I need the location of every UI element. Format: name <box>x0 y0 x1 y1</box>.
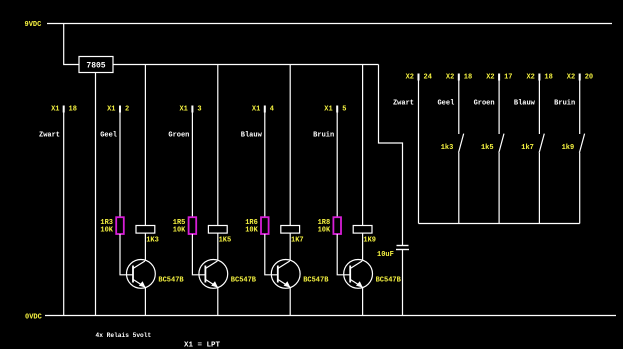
wire +5V rail to relay coil 1K3 <box>144 65 146 226</box>
svg-text:1k3: 1k3 <box>441 144 454 152</box>
1R6 10K value label <box>245 219 258 235</box>
relay coil 1K3 <box>136 226 155 234</box>
svg-text:10K: 10K <box>318 227 331 235</box>
svg-text:BC547B: BC547B <box>303 277 329 285</box>
X2 common bus wire <box>419 223 580 225</box>
svg-text:1k9: 1k9 <box>562 144 575 152</box>
connector X1 pin 3 <box>179 106 201 114</box>
wire coil 1K3 to collector of Q1 <box>144 233 146 261</box>
svg-text:3: 3 <box>197 106 201 114</box>
svg-text:10K: 10K <box>173 227 186 235</box>
connector X1 pin 5 <box>324 106 346 114</box>
svg-text:X2: X2 <box>486 74 494 82</box>
connector X1 pin 18 <box>51 106 77 114</box>
connector X2 pin 20 (Bruin) <box>567 74 593 82</box>
relay coil 1K7 <box>281 226 300 234</box>
resistor 1R6 10K <box>261 217 269 234</box>
+5V rail from 7805 output <box>113 64 379 66</box>
0VDC rail <box>45 315 616 317</box>
1R3 10K value label <box>100 219 113 235</box>
wire 9VDC rail to 7805 input <box>64 24 79 65</box>
voltage regulator U1 7805 <box>79 57 113 73</box>
svg-text:Bruin: Bruin <box>313 132 334 140</box>
wire resistor 1R5 to base of Q2 <box>192 234 205 275</box>
svg-text:1k5: 1k5 <box>481 144 494 152</box>
1R8 10K value label <box>318 219 331 235</box>
svg-text:1K5: 1K5 <box>219 237 232 245</box>
svg-text:Blauw: Blauw <box>241 132 263 140</box>
svg-text:BC547B: BC547B <box>376 277 402 285</box>
wire X2-18 to contact 1k7 <box>538 81 540 135</box>
wire X1-2 to resistor 1R3 <box>119 113 121 218</box>
svg-text:7805: 7805 <box>86 62 105 71</box>
svg-text:18: 18 <box>464 74 472 82</box>
wire +5V rail to relay coil 1K5 <box>217 65 219 226</box>
svg-text:10K: 10K <box>245 227 258 235</box>
svg-text:X2: X2 <box>526 74 534 82</box>
svg-text:Groen: Groen <box>168 132 189 140</box>
svg-text:Geel: Geel <box>437 100 454 108</box>
wire X1-4 to resistor 1R6 <box>264 113 266 218</box>
wire X2 common to bus <box>418 81 420 224</box>
svg-text:1k7: 1k7 <box>521 144 534 152</box>
wire +5V rail to relay coil 1K7 <box>289 65 291 226</box>
svg-text:Bruin: Bruin <box>554 100 575 108</box>
wire contact 1k5 to bus <box>498 153 500 224</box>
svg-text:2: 2 <box>125 106 129 114</box>
capacitor C1 <box>396 246 409 250</box>
svg-text:X1: X1 <box>107 106 115 114</box>
wire coil 1K7 to collector of Q3 <box>289 233 291 261</box>
resistor 1R5 10K <box>189 217 197 234</box>
relay coil 1K9 <box>353 226 372 234</box>
wire capacitor to 0VDC <box>402 250 404 316</box>
svg-text:X2: X2 <box>446 74 454 82</box>
wire resistor 1R8 to base of Q4 <box>337 234 350 275</box>
connector X2 pin 18 (Blauw) <box>526 74 552 82</box>
svg-text:24: 24 <box>424 74 432 82</box>
svg-text:4x Relais 5volt: 4x Relais 5volt <box>96 332 152 339</box>
transistor Q2 BC547B <box>199 260 228 289</box>
svg-text:Zwart: Zwart <box>39 132 60 140</box>
svg-text:20: 20 <box>585 74 593 82</box>
wire resistor 1R6 to base of Q3 <box>265 234 278 275</box>
svg-text:X2: X2 <box>406 74 414 82</box>
wire emitter of Q1 to 0VDC <box>144 288 146 316</box>
svg-text:17: 17 <box>504 74 512 82</box>
svg-text:18: 18 <box>69 106 77 114</box>
wire X2-17 to contact 1k5 <box>498 81 500 135</box>
wire X2-18 to contact 1k3 <box>458 81 460 135</box>
svg-text:Zwart: Zwart <box>393 100 414 108</box>
svg-text:1K3: 1K3 <box>146 237 159 245</box>
svg-text:4: 4 <box>270 106 274 114</box>
connector X2 pin 17 (Groen) <box>486 74 512 82</box>
connector X1 pin 2 <box>107 106 129 114</box>
wire X1-5 to resistor 1R8 <box>336 113 338 218</box>
svg-text:BC547B: BC547B <box>231 277 257 285</box>
wire emitter of Q4 to 0VDC <box>362 288 364 316</box>
svg-text:10uF: 10uF <box>377 251 394 259</box>
1R5 10K value label <box>173 219 186 235</box>
svg-text:X2: X2 <box>567 74 575 82</box>
relay coil 1K5 <box>208 226 227 234</box>
relay contact 1k9 (NO switch) <box>579 134 584 153</box>
svg-text:Geel: Geel <box>100 132 117 140</box>
svg-text:10K: 10K <box>100 227 113 235</box>
svg-text:BC547B: BC547B <box>158 277 184 285</box>
svg-text:X1: X1 <box>51 106 59 114</box>
connector X1 pin 4 <box>252 106 274 114</box>
svg-text:18: 18 <box>544 74 552 82</box>
wire coil 1K9 to collector of Q4 <box>362 233 364 261</box>
svg-text:X1 = LPT: X1 = LPT <box>184 341 221 349</box>
wire coil 1K5 to collector of Q2 <box>217 233 219 261</box>
wire emitter of Q3 to 0VDC <box>289 288 291 316</box>
relay contact 1k3 (NO switch) <box>459 134 464 153</box>
svg-text:1K7: 1K7 <box>291 237 304 245</box>
wire X1-18 to 0VDC <box>63 113 65 316</box>
svg-text:X1: X1 <box>252 106 260 114</box>
wire X2-20 to contact 1k9 <box>579 81 581 135</box>
wire +5V rail to relay coil 1K9 <box>362 65 364 226</box>
connector X2 pin 18 (Geel) <box>446 74 472 82</box>
relay contact 1k7 (NO switch) <box>539 134 544 153</box>
wire 7805 ground pin to 0VDC <box>95 73 97 316</box>
svg-text:0VDC: 0VDC <box>25 314 42 322</box>
connector X2 pin 24 (Zwart) <box>406 74 432 82</box>
wire contact 1k3 to bus <box>458 153 460 224</box>
svg-text:5: 5 <box>342 106 346 114</box>
svg-text:Blauw: Blauw <box>514 100 536 108</box>
relay contact 1k5 (NO switch) <box>499 134 504 153</box>
9VDC rail <box>47 23 612 25</box>
transistor Q1 BC547B <box>126 260 155 289</box>
svg-text:X1: X1 <box>179 106 187 114</box>
svg-text:1K9: 1K9 <box>363 237 376 245</box>
wire X1-3 to resistor 1R5 <box>191 113 193 218</box>
svg-text:X1: X1 <box>324 106 332 114</box>
wire contact 1k7 to bus <box>538 153 540 224</box>
wire +5V rail to capacitor <box>379 65 403 246</box>
wire contact 1k9 to bus <box>579 153 581 224</box>
wire resistor 1R3 to base of Q1 <box>120 234 133 275</box>
wire emitter of Q2 to 0VDC <box>217 288 219 316</box>
resistor 1R8 10K <box>333 217 341 234</box>
svg-text:9VDC: 9VDC <box>25 21 42 29</box>
transistor Q4 BC547B <box>344 260 373 289</box>
transistor Q3 BC547B <box>271 260 300 289</box>
resistor 1R3 10K <box>116 217 124 234</box>
svg-text:Groen: Groen <box>474 100 495 108</box>
